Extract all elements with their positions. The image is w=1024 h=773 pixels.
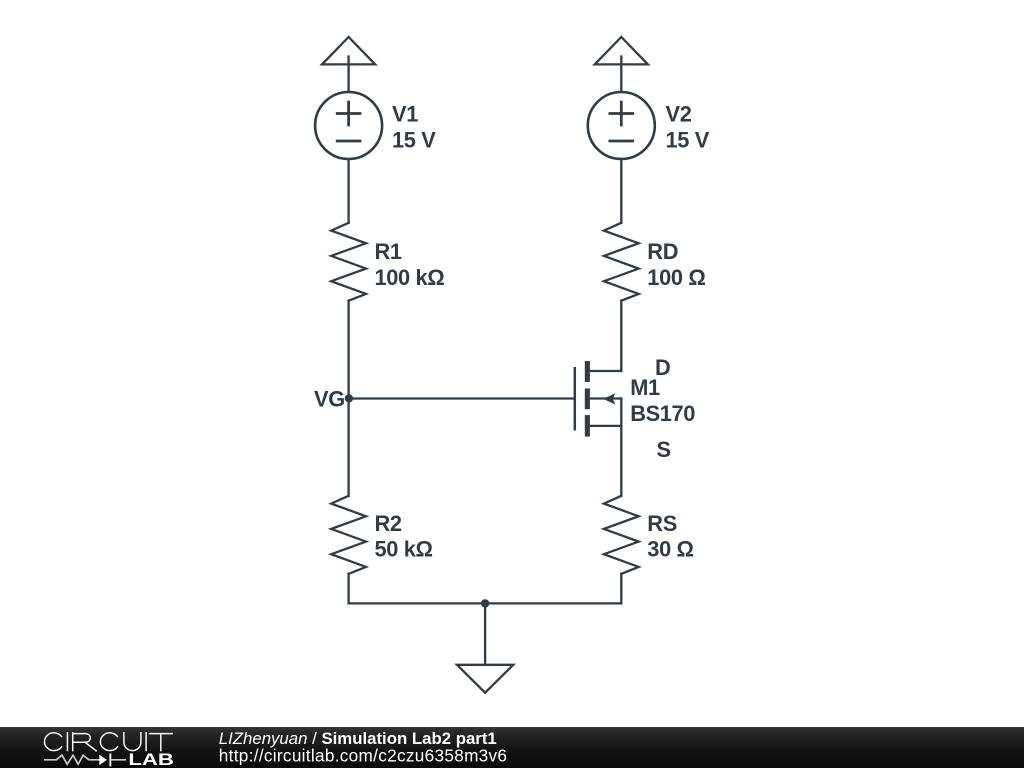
M1 gate plate [574, 368, 577, 429]
wire node VG to gate of M1 [349, 397, 575, 399]
R2 value label "R2 / 50 kΩ" [375, 511, 433, 562]
voltage source V2 [588, 92, 655, 159]
svg-text:RS: RS [647, 511, 677, 536]
M1 channel bar (drain) [585, 361, 590, 382]
resistor RD [604, 223, 639, 301]
voltage source V1 [315, 92, 382, 159]
resistor RS [604, 496, 639, 574]
svg-text:LAB: LAB [128, 751, 174, 768]
svg-text:V1: V1 [392, 102, 418, 127]
wire V1 to R1 [347, 160, 349, 223]
ground symbol [457, 603, 513, 692]
wire V2 to RD [620, 160, 622, 223]
svg-text:M1: M1 [630, 375, 660, 400]
svg-text:15 V: 15 V [392, 128, 436, 153]
footer bar [0, 727, 1024, 768]
M1 source lead [590, 425, 621, 427]
wire node VG to R2 [347, 399, 349, 496]
M1 channel bar (source) [585, 415, 590, 437]
svg-text:100 kΩ: 100 kΩ [375, 265, 445, 290]
svg-text:50 kΩ: 50 kΩ [375, 537, 433, 562]
wire R2 to ground rail [347, 574, 349, 604]
RS value label "RS / 30 Ω" [647, 511, 693, 562]
svg-text:BS170: BS170 [630, 401, 695, 426]
wire ground rail (right segment) [485, 602, 621, 604]
power symbol VCC (net of V2) [595, 37, 648, 92]
svg-text:http://circuitlab.com/c2czu635: http://circuitlab.com/c2czu6358m3v6 [219, 746, 508, 766]
svg-text:30 Ω: 30 Ω [647, 537, 693, 562]
V1 value label "V1 / 15 V" [392, 102, 436, 153]
node VG junction dot [345, 394, 353, 402]
logo resistor squiggle [45, 755, 100, 764]
RD value label "RD / 100 Ω" [647, 239, 705, 290]
svg-text:V2: V2 [666, 102, 692, 127]
power symbol VCC (net of V1) [322, 37, 375, 92]
M1 body lead with arrow [590, 397, 621, 399]
svg-text:100 Ω: 100 Ω [647, 265, 705, 290]
M1 source/body vertical [620, 399, 622, 426]
M1 channel bar (body) [585, 388, 590, 409]
svg-text:15 V: 15 V [666, 128, 710, 153]
svg-text:R2: R2 [375, 511, 402, 536]
svg-text:S: S [657, 437, 671, 462]
wire R1 to node VG [347, 301, 349, 399]
transistor M1 (BS170 NMOS) [575, 361, 622, 437]
svg-text:R1: R1 [375, 239, 402, 264]
M1 drain lead [590, 370, 621, 372]
logo diode [99, 754, 125, 767]
V2 value label "V2 / 15 V" [666, 102, 710, 153]
wire ground rail (left segment) [349, 602, 486, 604]
wire RD to M1 drain [620, 301, 622, 371]
svg-text:RD: RD [647, 239, 678, 264]
resistor R2 [331, 496, 366, 574]
resistor R1 [331, 223, 366, 301]
wire M1 source to RS [620, 426, 622, 496]
R1 value label "R1 / 100 kΩ" [375, 239, 445, 290]
wire RS to ground rail [620, 574, 622, 604]
svg-text:VG: VG [314, 386, 345, 411]
CircuitLab logo wordmark CIRCUIT (hand drawn) [44, 733, 172, 751]
junction dot at ground tap [481, 599, 489, 607]
